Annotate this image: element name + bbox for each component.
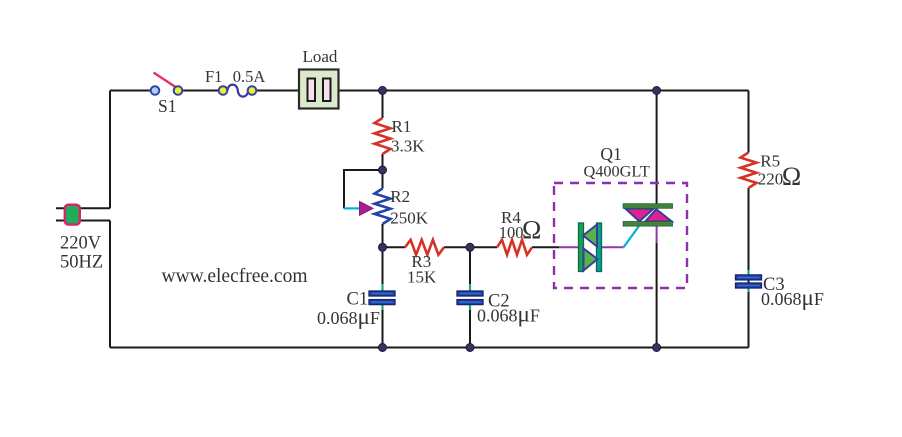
svg-text:50HZ: 50HZ (60, 253, 103, 273)
node bottom C2 (466, 344, 474, 352)
capacitor C3 plate top (736, 275, 762, 280)
svg-text:220: 220 (758, 169, 784, 188)
resistor R3 (405, 240, 444, 255)
resistor R4 (497, 240, 532, 255)
wire pot feedback top (344, 170, 383, 208)
wire S1 to F1 (182, 90, 219, 92)
svg-text:15K: 15K (407, 268, 437, 287)
triac Q1 bar bottom (623, 222, 672, 226)
svg-text:F1: F1 (205, 67, 222, 86)
wire branch C1 upper (382, 247, 384, 285)
diac right bar (597, 223, 602, 272)
capacitor C2 plate top (457, 291, 483, 296)
wire right rail above R5 (748, 91, 750, 153)
C1 green lead bottom (381, 304, 383, 311)
svg-text:S1: S1 (158, 96, 176, 116)
diac triangle lower (584, 249, 598, 271)
wire node B to R3 (383, 246, 406, 248)
svg-text:100: 100 (499, 223, 524, 242)
C2 green lead bottom (469, 304, 471, 311)
wire triac MT1 purple (656, 226, 658, 243)
svg-text:0.5A: 0.5A (233, 67, 266, 86)
wire left rail upper (109, 91, 111, 209)
wire node A to R2 (382, 170, 384, 189)
dashed box Q1 (554, 183, 687, 288)
node B R2/R3 (379, 243, 387, 251)
node top R1 (379, 87, 387, 95)
C2 green lead top (469, 284, 471, 291)
svg-text:Load: Load (303, 47, 338, 66)
triac Q1 triangle left (625, 209, 653, 222)
svg-text:Ω: Ω (522, 216, 541, 245)
capacitor C1 plate top (369, 291, 395, 296)
wire C1 to bottom rail (382, 310, 384, 348)
wire triac branch bottom (656, 243, 658, 348)
svg-text:0.068μF: 0.068μF (761, 285, 824, 310)
wire triac branch top (656, 91, 658, 204)
wire pot wiper cyan (344, 207, 360, 209)
node A R1/R2 (379, 166, 387, 174)
fuse F1 left terminal (219, 86, 228, 95)
node C R3/R4/C2 (466, 243, 474, 251)
wire left rail lower (109, 221, 111, 348)
wire branch C2 upper (469, 247, 471, 285)
load inner element left (308, 79, 316, 102)
capacitor C1 plate bottom (369, 300, 395, 305)
svg-text:0.068μF: 0.068μF (317, 304, 380, 329)
svg-text:220V: 220V (60, 234, 102, 254)
potentiometer R2 (375, 189, 391, 225)
switch S1 arm (154, 73, 178, 89)
wire Load to right top corner (339, 90, 749, 92)
C3 green lead bottom (747, 286, 749, 292)
triac Q1 bar bottom stripe (625, 223, 671, 225)
triac Q1 bar top stripe (625, 205, 671, 207)
wire source bottom prong (56, 220, 110, 222)
resistor R1 (375, 118, 391, 154)
svg-text:R2: R2 (390, 187, 410, 206)
switch S1 left contact (151, 86, 160, 95)
wire right rail R5 to C3 (748, 188, 750, 284)
svg-text:R5: R5 (760, 152, 780, 171)
wire purple diac to gate elbow (602, 246, 624, 248)
diac triangle upper (583, 225, 597, 247)
fuse F1 right terminal (248, 86, 257, 95)
C1 green lead top (381, 284, 383, 291)
triac Q1 triangle right (645, 209, 671, 221)
wire branch R1 top (382, 91, 384, 119)
node bottom C1 (379, 344, 387, 352)
svg-text:0.068μF: 0.068μF (477, 302, 540, 327)
node bottom triac (653, 344, 661, 352)
wire node C to R4 (470, 246, 497, 248)
triac Q1 bar top (623, 204, 672, 208)
wire C2 to bottom rail (469, 310, 471, 348)
wire R1 to node A (382, 154, 384, 170)
svg-text:3.3K: 3.3K (391, 137, 425, 156)
svg-text:R1: R1 (392, 117, 412, 136)
wire R4 to dashed box (532, 246, 559, 248)
switch S1 right contact (174, 86, 183, 95)
svg-text:250K: 250K (390, 208, 429, 227)
AC source plug (65, 205, 80, 225)
wire top-left from left rail to S1 (110, 90, 151, 92)
wire F1 to Load (256, 90, 299, 92)
pot wiper arrow (360, 202, 374, 216)
svg-text:Ω: Ω (782, 162, 801, 191)
capacitor C2 plate bottom (457, 300, 483, 305)
wire purple into diac (559, 246, 579, 248)
diac left bar (579, 223, 584, 272)
wire bottom rail (110, 347, 749, 349)
svg-text:www.elecfree.com: www.elecfree.com (162, 266, 308, 287)
C3 green lead top (747, 270, 749, 275)
wire cyan gate lead (624, 226, 640, 247)
resistor R5 (741, 153, 757, 189)
load inner element right (323, 79, 331, 102)
wire R3 to node C (444, 246, 470, 248)
wire source top prong (56, 207, 110, 209)
capacitor C3 plate bottom (736, 283, 762, 288)
fuse F1 squiggle (227, 85, 248, 97)
load box (299, 70, 339, 109)
wire R2 to node B (382, 224, 384, 247)
node top triac (653, 87, 661, 95)
wire right rail below C3 (748, 288, 750, 348)
svg-text:Q400GLT: Q400GLT (584, 162, 650, 181)
